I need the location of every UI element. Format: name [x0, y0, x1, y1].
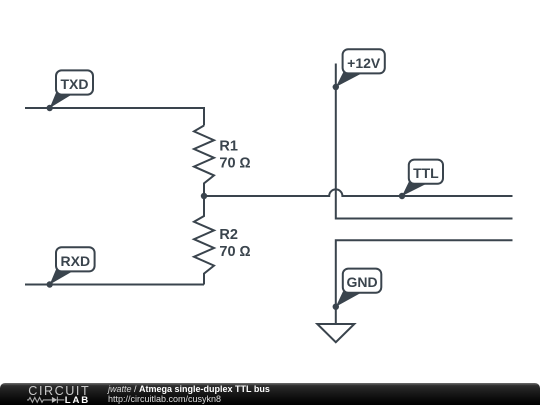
resistor R2 [194, 196, 214, 285]
svg-text:TXD: TXD [61, 76, 89, 92]
svg-text:LAB: LAB [65, 395, 90, 405]
wire TXD net [25, 108, 204, 126]
node flag TTL [399, 160, 443, 200]
value label R2 70 Ω [219, 227, 250, 260]
ground symbol [317, 324, 354, 342]
svg-text:R1: R1 [219, 138, 238, 154]
wire +12V net [336, 64, 513, 219]
wire TTL net with hop over +12V wire [204, 189, 513, 196]
svg-text:70 Ω: 70 Ω [219, 244, 250, 260]
svg-text:+12V: +12V [347, 55, 381, 71]
svg-text:70 Ω: 70 Ω [219, 156, 250, 172]
credit text [108, 383, 270, 405]
node flag RXD [47, 247, 95, 287]
value label R1 70 Ω [219, 138, 250, 171]
wire RXD net [25, 284, 204, 286]
resistor R1 [194, 126, 214, 196]
junction between R1 and R2 [201, 193, 207, 199]
svg-text:R2: R2 [219, 227, 238, 243]
footer bar [0, 383, 540, 405]
diode triangle [52, 397, 57, 403]
node flag GND [333, 269, 382, 310]
svg-text:GND: GND [346, 274, 377, 290]
node flag TXD [47, 70, 94, 111]
node flag +12V [333, 49, 385, 90]
wire GND net [336, 240, 513, 324]
svg-text:TTL: TTL [413, 165, 439, 181]
svg-text:RXD: RXD [61, 253, 91, 269]
CircuitLab logo [27, 384, 102, 405]
